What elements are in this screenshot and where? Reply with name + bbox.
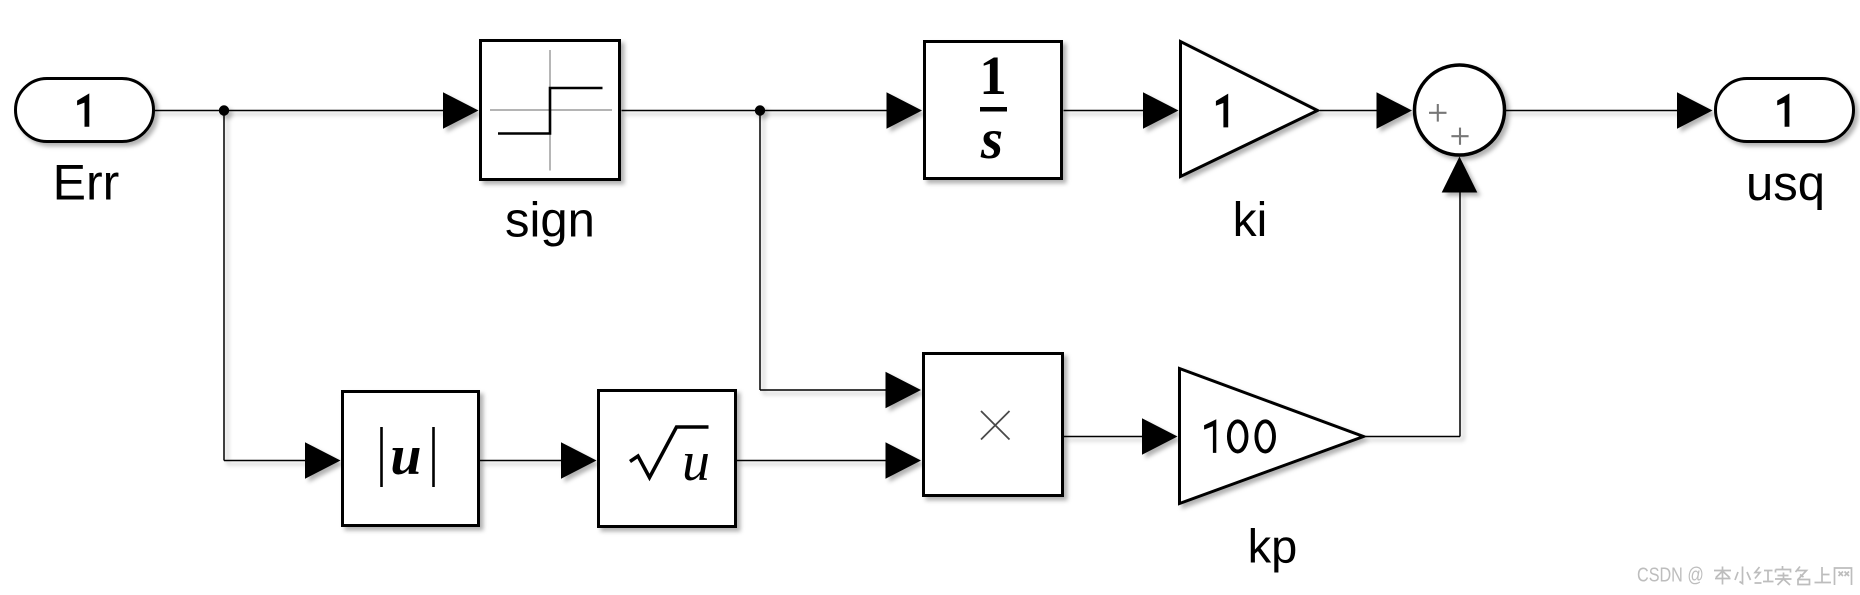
watermark chinese characters (drawn strokes) xyxy=(1714,566,1852,585)
char li xyxy=(1714,567,1731,585)
char shang xyxy=(1815,567,1832,583)
svg-text:s: s xyxy=(980,108,1003,171)
abs icon bars xyxy=(380,427,383,487)
integrator block 1/s xyxy=(925,42,1062,179)
svg-text:Err: Err xyxy=(53,155,120,211)
svg-text:kp: kp xyxy=(1248,520,1298,573)
sum block circle xyxy=(1415,65,1505,155)
junction node xyxy=(219,105,229,115)
wire gain ki to sum xyxy=(1320,110,1378,112)
wire product to gain kp xyxy=(1064,436,1144,438)
arrowhead into sum (left) xyxy=(1377,92,1413,128)
product block xyxy=(924,354,1063,496)
label 1 of output port xyxy=(1777,93,1789,126)
gain kp value 100 xyxy=(1204,419,1216,453)
sign icon step curve xyxy=(498,88,603,134)
input port 1 (Err) xyxy=(16,79,154,142)
svg-text:1: 1 xyxy=(979,45,1007,106)
arrowhead into product input 2 xyxy=(886,442,922,478)
svg-text:sign: sign xyxy=(505,194,595,248)
arrowhead into integrator xyxy=(887,92,923,128)
sign block xyxy=(481,41,620,180)
char ming xyxy=(1796,567,1810,585)
gain ki value 1 xyxy=(1216,94,1228,128)
sign icon axes xyxy=(490,109,612,111)
sum plus sign 2 xyxy=(1451,128,1468,145)
sqrt block xyxy=(599,391,736,527)
wire junction down left branch xyxy=(223,111,225,461)
arrowhead into gain ki xyxy=(1143,92,1179,128)
sum plus sign 1 xyxy=(1429,104,1447,122)
wire integrator to gain ki xyxy=(1064,110,1145,112)
wire abs to sqrt xyxy=(480,460,562,462)
arrowhead into output port xyxy=(1677,92,1713,128)
arrowhead into sqrt xyxy=(561,442,597,478)
wire gain kp to sum (up) xyxy=(1366,436,1460,438)
char xiao xyxy=(1735,567,1751,584)
svg-text:ki: ki xyxy=(1233,194,1268,247)
output port 1 (usq) xyxy=(1716,79,1854,142)
svg-text:u: u xyxy=(682,431,710,493)
wire sqrt to product xyxy=(737,460,887,462)
svg-text:CSDN @: CSDN @ xyxy=(1637,563,1704,586)
wire junction to sign arrow xyxy=(224,110,444,112)
char wang xyxy=(1835,568,1852,585)
arrowhead into abs xyxy=(305,442,341,478)
abs block |u| xyxy=(343,392,479,526)
sqrt radical sign xyxy=(630,427,709,478)
junction node after sign xyxy=(755,105,765,115)
wire sum to output port xyxy=(1506,110,1678,112)
arrowhead into gain kp xyxy=(1142,418,1178,454)
arrowhead into sign xyxy=(443,92,479,128)
label 1 of input port xyxy=(77,93,89,126)
gain kp triangle xyxy=(1180,369,1364,504)
product icon X xyxy=(981,411,1010,440)
svg-text:usq: usq xyxy=(1746,157,1825,211)
wire Err to junction xyxy=(155,110,226,112)
char shi xyxy=(1775,566,1792,585)
arrowhead into sum (bottom) xyxy=(1442,157,1478,193)
wire to abs block xyxy=(224,460,306,462)
fraction bar of 1/s xyxy=(980,107,1007,112)
arrowhead into product input 1 xyxy=(886,372,922,408)
wire sign to integrator xyxy=(622,110,889,112)
svg-text:u: u xyxy=(390,425,421,487)
char hong xyxy=(1755,567,1774,583)
gain ki triangle xyxy=(1181,42,1318,177)
wire sign branch down to product input 1 xyxy=(759,111,761,391)
